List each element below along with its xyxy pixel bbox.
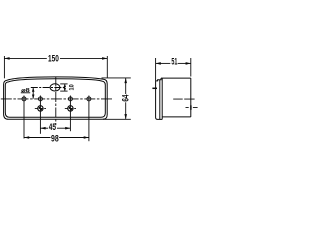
holes centerline (chain line) (1, 98, 113, 100)
arrowhead 51 right (186, 62, 191, 65)
dim 98 line left part (24, 137, 51, 139)
small hole right inner (68, 97, 72, 101)
lamp front view outer outline (4, 77, 108, 119)
screw right dot b (71, 109, 73, 111)
oval window (50, 84, 60, 91)
extension line 98 left through outer hole (23, 96, 25, 139)
arrowhead oval dim top (64, 84, 66, 87)
oval height top tick (60, 83, 67, 85)
side view holes centerline (173, 98, 194, 100)
dim 64 line bottom part (125, 102, 127, 119)
arrowhead 98 left (24, 136, 29, 139)
screw left dot b (41, 109, 43, 111)
svg-text:10: 10 (69, 84, 76, 91)
svg-text:⌀8: ⌀8 (21, 88, 30, 94)
svg-text:98: 98 (51, 133, 59, 143)
screw left (38, 106, 43, 111)
dim 51 extension right (190, 58, 192, 77)
lamp front view inner outline (5, 79, 105, 118)
extension line 45 left through inner hole and screw (39, 96, 41, 134)
arrowhead 150 right (102, 57, 107, 60)
dim 45 line right part (57, 127, 70, 129)
side view stud tick (190, 105, 191, 110)
screw right dot a (69, 107, 71, 109)
dim 51 extension left (155, 58, 157, 81)
small hole left inner (38, 97, 42, 101)
phi8 label underline (21, 92, 30, 94)
arrowhead 64 top (124, 78, 127, 83)
arrowhead 150 left (4, 57, 9, 60)
extension line 98 right through outer hole (88, 96, 90, 142)
small dim left arrow line (32, 88, 34, 99)
dim 64 extension top (102, 77, 131, 79)
side view body top (161, 77, 191, 79)
side view body back (190, 78, 192, 117)
screw left cross dashes (35, 107, 46, 109)
dim 51 line right part (178, 62, 191, 64)
small hole left outer (22, 97, 26, 101)
arrowhead 45 right (65, 127, 70, 130)
side view rim line 1 (159, 80, 161, 120)
dim 98 line right part (59, 137, 89, 139)
side view lens front face (156, 80, 163, 120)
dim 150 extension right (106, 56, 108, 78)
side view stud centerline (186, 107, 198, 109)
arrowhead oval dim bottom (64, 88, 66, 91)
oval horizontal centerline (31, 87, 66, 89)
dim 45 line left part (40, 127, 48, 129)
oval height bottom tick (60, 90, 67, 92)
svg-text:64: 64 (121, 94, 131, 102)
svg-text:150: 150 (48, 54, 59, 64)
dim 150 line right part (60, 57, 107, 59)
side view body bottom (162, 116, 191, 118)
dim 150 extension left (3, 56, 5, 78)
lamp vertical centerline (55, 77, 57, 126)
side view rim line 2 (161, 78, 163, 119)
small hole right outer (87, 97, 91, 101)
svg-text:51: 51 (171, 56, 177, 66)
side view screw tick (152, 87, 157, 89)
arrowhead 51 left (156, 62, 161, 65)
arrowhead 98 right (84, 136, 89, 139)
screw left dot a (39, 107, 41, 109)
svg-text:45: 45 (49, 122, 56, 132)
dim 64 line top part (125, 78, 127, 94)
dim 51 line left part (156, 62, 171, 64)
dim 64 extension bottom (103, 118, 131, 120)
screw right cross dashes (65, 107, 76, 109)
oval height dim line (64, 84, 66, 91)
arrowhead small dim bottom (32, 95, 35, 99)
screw right (68, 106, 73, 111)
arrowhead small dim top (32, 88, 35, 92)
dim 150 line left part (4, 57, 46, 59)
side view rim step top (160, 78, 161, 80)
arrowhead 64 bottom (124, 114, 127, 119)
extension line 45 right through inner hole and screw (69, 96, 71, 132)
arrowhead 45 left (40, 127, 45, 130)
